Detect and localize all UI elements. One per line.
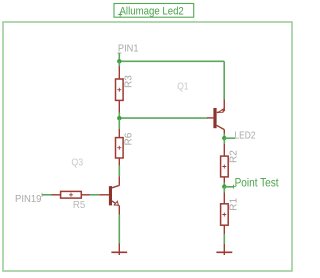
svg-text:R3: R3 [123,75,134,88]
resistor R1 [221,193,229,235]
wire Q3 emitter to ground [118,215,120,245]
ground left [111,244,127,256]
svg-text:PIN19: PIN19 [15,194,42,205]
svg-text:R1: R1 [228,198,239,211]
pin mark PIN19 [41,193,43,197]
wire R6 to Q3 collector [118,166,120,177]
transistor Q3 [99,176,119,215]
resistor R6 [116,129,124,166]
junction Point Test node [222,184,226,188]
wire LED2 stub right [224,137,235,139]
wire Q1 collector to LED2 node [223,134,225,139]
svg-text:Point Test: Point Test [235,175,280,189]
transistor Q1 [207,100,224,135]
svg-text:LED2: LED2 [235,131,256,142]
wire junction to R6 [118,118,120,129]
node Point Test label [232,185,236,189]
resistor R5 [52,191,91,198]
wire R3 to junction [118,113,120,119]
wire junction to R3 [118,61,120,67]
wire PIN19 to R5 [42,194,52,196]
svg-text:Q3: Q3 [71,158,83,169]
title origin cross [118,13,122,17]
resistor R3 [116,66,124,112]
junction top node [117,59,121,63]
svg-text:R2: R2 [228,150,239,163]
svg-text:R6: R6 [123,132,134,145]
svg-text:R5: R5 [73,200,86,211]
wire base rail to Q1 [119,117,207,119]
title frame box [114,4,194,18]
svg-text:Q1: Q1 [177,81,189,92]
wire Point Test node down [223,187,225,193]
pin mark PIN1 [117,52,121,54]
wire LED2 node down [223,138,225,144]
wire R2 to Point Test node [223,183,225,187]
ground right [216,244,232,255]
wire top rail horizontal [119,60,224,62]
wire top rail down to Q1 emitter [223,61,225,100]
junction middle node [117,116,121,120]
wire R1 to ground [223,234,225,244]
svg-text:Allumage Led2: Allumage Led2 [120,5,184,17]
junction LED2 node [222,136,226,140]
wire R5 to Q3 base [90,194,99,196]
wire Point Test stub right [224,186,233,188]
wire PIN1 stub [118,53,120,61]
resistor R2 [221,144,229,183]
